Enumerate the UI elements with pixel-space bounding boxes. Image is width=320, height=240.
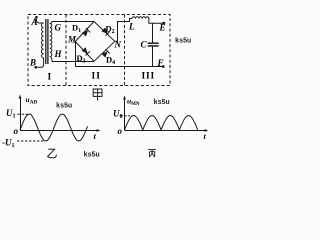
wire N up and right to inductor <box>115 19 132 42</box>
graph 乙: sine curve of u_AB <box>20 114 88 141</box>
wire A to primary top <box>36 17 43 23</box>
wire M down to bottom rail <box>75 42 77 67</box>
wire inductor to terminal E <box>149 19 164 24</box>
graph 丙: x-axis <box>125 130 207 132</box>
transformer core <box>45 19 47 64</box>
diode D4 <box>101 49 109 57</box>
label 乙 (drawn strokes) <box>48 149 57 157</box>
graph 乙: -U1 level dashed line <box>17 140 45 142</box>
label 丙 (drawn strokes) <box>148 150 156 158</box>
inductor L winding <box>132 17 149 19</box>
bottom output rail to F <box>75 66 163 68</box>
svg-text:II: II <box>92 72 102 82</box>
terminal B dot <box>34 66 37 69</box>
graph 乙: x-axis <box>21 130 99 132</box>
svg-text:I: I <box>48 73 52 83</box>
bridge diamond edge M-top <box>75 22 94 42</box>
terminal A dot <box>35 16 38 19</box>
svg-text:o: o <box>14 126 19 136</box>
capacitor C bottom lead <box>152 46 154 67</box>
capacitor C top lead <box>152 23 154 43</box>
svg-text:L: L <box>128 22 135 32</box>
wire H: secondary bottom to bridge bottom vertex <box>50 57 94 62</box>
graph 乙: U1 level dashed tick <box>18 113 29 115</box>
dashed divider I|II <box>65 15 67 86</box>
svg-text:ks5u: ks5u <box>84 152 100 160</box>
wire G: secondary top to bridge top vertex <box>50 22 94 24</box>
diode D1 <box>82 28 90 36</box>
wire B to primary bottom <box>36 58 44 67</box>
diode D2 <box>101 27 109 35</box>
terminal E dot <box>162 22 165 25</box>
capacitor C plates <box>148 42 159 44</box>
transformer primary winding <box>41 23 43 58</box>
dashed enclosure box of circuit 甲 <box>28 15 170 86</box>
svg-text:ks5u: ks5u <box>56 103 72 111</box>
svg-text:C: C <box>141 40 148 50</box>
dashed divider II|III <box>124 15 126 86</box>
graph 丙: U0 level tick <box>121 115 131 117</box>
svg-text:G: G <box>55 23 62 33</box>
bridge diamond edge bottom-N <box>94 41 115 61</box>
svg-text:ks5u: ks5u <box>175 38 191 46</box>
transformer secondary winding <box>50 24 52 57</box>
svg-text:III: III <box>142 72 156 82</box>
svg-text:ks5u: ks5u <box>154 99 170 107</box>
svg-text:E: E <box>159 23 166 33</box>
svg-text:B: B <box>29 58 36 68</box>
svg-text:M: M <box>67 35 77 45</box>
svg-text:H: H <box>54 49 63 59</box>
svg-text:F: F <box>157 58 164 68</box>
diode D3 <box>81 47 89 55</box>
svg-text:A: A <box>31 17 38 27</box>
graph 丙: y-axis <box>124 98 126 131</box>
svg-text:o: o <box>118 126 123 136</box>
terminal F dot <box>162 65 165 68</box>
graph 乙: y-axis <box>20 97 22 131</box>
bridge diamond edge top-N <box>94 22 115 42</box>
bridge diamond edge M-bottom <box>75 42 94 62</box>
graph 丙: rectified humps of u_MN <box>125 116 198 131</box>
svg-text:N: N <box>114 40 122 50</box>
label 甲 (drawn strokes) <box>93 89 102 101</box>
